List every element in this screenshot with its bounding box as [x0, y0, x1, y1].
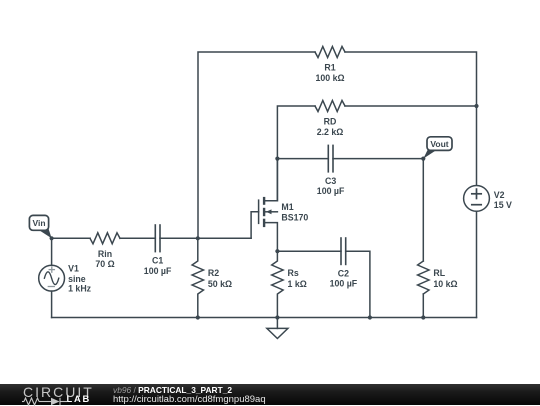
resistor R1 [315, 47, 345, 58]
svg-text:sine: sine [68, 274, 86, 284]
wire C2 right lead down [346, 251, 370, 317]
svg-text:10 kΩ: 10 kΩ [433, 279, 457, 289]
svg-text:M1: M1 [281, 202, 293, 212]
junction node dots [50, 104, 479, 320]
footer url line [113, 394, 266, 405]
node supply/RD [474, 104, 478, 108]
V2 plus sign [472, 189, 481, 198]
label V1 [68, 264, 92, 294]
node Vin anchor [50, 236, 54, 240]
wire C1 to gate corner [160, 237, 251, 239]
svg-text:100 µF: 100 µF [330, 279, 358, 289]
wire top right to supply column [345, 52, 477, 185]
svg-text:Vout: Vout [430, 139, 448, 149]
wire RD right lead [345, 105, 477, 107]
ground [267, 318, 288, 339]
label C1 [144, 256, 172, 276]
wire C3 right lead to Vout node [333, 159, 423, 261]
node R2 bottom [196, 315, 200, 319]
svg-text:Vin: Vin [32, 218, 45, 228]
svg-text:50 kΩ: 50 kΩ [208, 279, 232, 289]
capacitor C2 [341, 237, 346, 265]
resistor Rs [272, 251, 283, 317]
wire V1 bottom lead [51, 291, 53, 317]
label V2 [494, 190, 512, 210]
label RD [317, 117, 344, 137]
svg-text:RD: RD [324, 117, 337, 127]
node Vout anchor [421, 157, 425, 161]
label R2 [208, 268, 232, 289]
svg-text:RL: RL [433, 268, 445, 278]
resistor Rin [90, 233, 120, 244]
label C2 [330, 268, 358, 288]
svg-text:R2: R2 [208, 268, 219, 278]
svg-text:100 µF: 100 µF [317, 186, 345, 196]
transistor M1 [259, 159, 278, 252]
wire C2 left lead [277, 250, 341, 252]
svg-text:V2: V2 [494, 190, 505, 200]
svg-text:BS170: BS170 [281, 212, 308, 222]
wire Rin to C1 [120, 237, 155, 239]
label R1 [315, 63, 344, 83]
wire V1 top lead [51, 238, 53, 265]
svg-text:Rs: Rs [288, 268, 299, 278]
V1 sine wave [44, 272, 58, 285]
flag Vout [423, 137, 452, 159]
svg-text:R1: R1 [324, 63, 335, 73]
V1 plus sign [49, 267, 54, 272]
capacitor C1 [155, 224, 160, 252]
V2 minus sign [472, 204, 481, 206]
voltage source V2 circle [464, 186, 490, 212]
svg-text:15 V: 15 V [494, 200, 512, 210]
wire gate riser [251, 212, 259, 239]
flag Vin [29, 215, 51, 238]
wire RD row [277, 106, 315, 201]
label RL [433, 268, 457, 289]
logo LAB [67, 394, 92, 404]
svg-text:100 kΩ: 100 kΩ [315, 73, 344, 83]
resistor R2 [192, 238, 203, 317]
svg-text:V1: V1 [68, 264, 79, 274]
svg-text:100 µF: 100 µF [144, 266, 172, 276]
label M1 [281, 202, 308, 222]
wire input row left [52, 237, 90, 239]
wire V2 bottom lead [476, 211, 478, 317]
svg-text:C2: C2 [338, 268, 349, 278]
wire top-left vertical (gate bias column) [198, 52, 315, 238]
voltage source V1 circle [39, 265, 65, 291]
label Rin [95, 249, 114, 269]
resistor RD [315, 101, 345, 112]
wire RL bottom lead [422, 294, 424, 318]
resistor RL [418, 261, 429, 294]
svg-text:Rin: Rin [98, 249, 112, 259]
logo CIRCUIT [23, 384, 94, 400]
svg-text:70 Ω: 70 Ω [95, 259, 114, 269]
svg-text:1 kHz: 1 kHz [68, 284, 92, 294]
node C2 bottom [368, 315, 372, 319]
node ground junction [275, 315, 279, 319]
node gate/R2 top [196, 236, 200, 240]
wire C3 left lead [277, 158, 328, 160]
node source/C2 [275, 249, 279, 253]
label Rs [288, 268, 307, 289]
wire bottom rail [52, 317, 477, 319]
label C3 [317, 176, 345, 196]
node drain/C3 [275, 157, 279, 161]
svg-text:C3: C3 [325, 176, 336, 186]
footer title line [113, 385, 232, 395]
svg-text:2.2 kΩ: 2.2 kΩ [317, 127, 344, 137]
capacitor C3 [328, 145, 333, 173]
logo wire-resistor-diode glyph [22, 397, 67, 406]
svg-text:1 kΩ: 1 kΩ [288, 279, 307, 289]
footer bar [0, 384, 540, 405]
V1 minus sign [48, 286, 54, 288]
svg-text:C1: C1 [152, 256, 163, 266]
node RL bottom [421, 315, 425, 319]
